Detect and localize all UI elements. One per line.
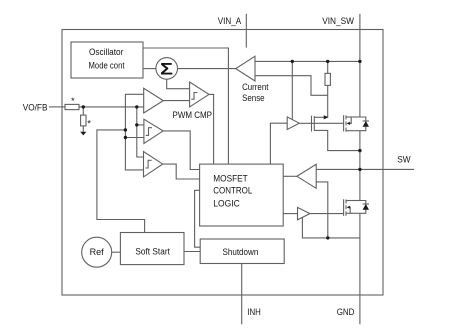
svg-text:Ref: Ref: [90, 247, 105, 257]
svg-text:Mode cont: Mode cont: [89, 61, 125, 71]
svg-text:VIN_A: VIN_A: [218, 16, 241, 26]
svg-text:*: *: [87, 119, 91, 130]
svg-text:Current: Current: [242, 82, 269, 92]
svg-text:Σ: Σ: [160, 61, 173, 79]
svg-text:Shutdown: Shutdown: [223, 247, 259, 257]
svg-text:Oscillator: Oscillator: [89, 47, 123, 57]
svg-text:GND: GND: [337, 307, 355, 317]
svg-text:CONTROL: CONTROL: [213, 185, 252, 195]
svg-text:VIN_SW: VIN_SW: [322, 16, 354, 26]
svg-text:Soft Start: Soft Start: [135, 247, 170, 257]
svg-text:*: *: [71, 96, 75, 107]
svg-text:INH: INH: [247, 307, 260, 317]
svg-text:LOGIC: LOGIC: [213, 198, 240, 208]
svg-text:SW: SW: [397, 155, 411, 165]
svg-text:VO/FB: VO/FB: [23, 102, 48, 112]
svg-text:Sense: Sense: [242, 93, 265, 103]
svg-text:PWM CMP: PWM CMP: [173, 110, 213, 120]
svg-text:MOSFET: MOSFET: [213, 173, 248, 183]
